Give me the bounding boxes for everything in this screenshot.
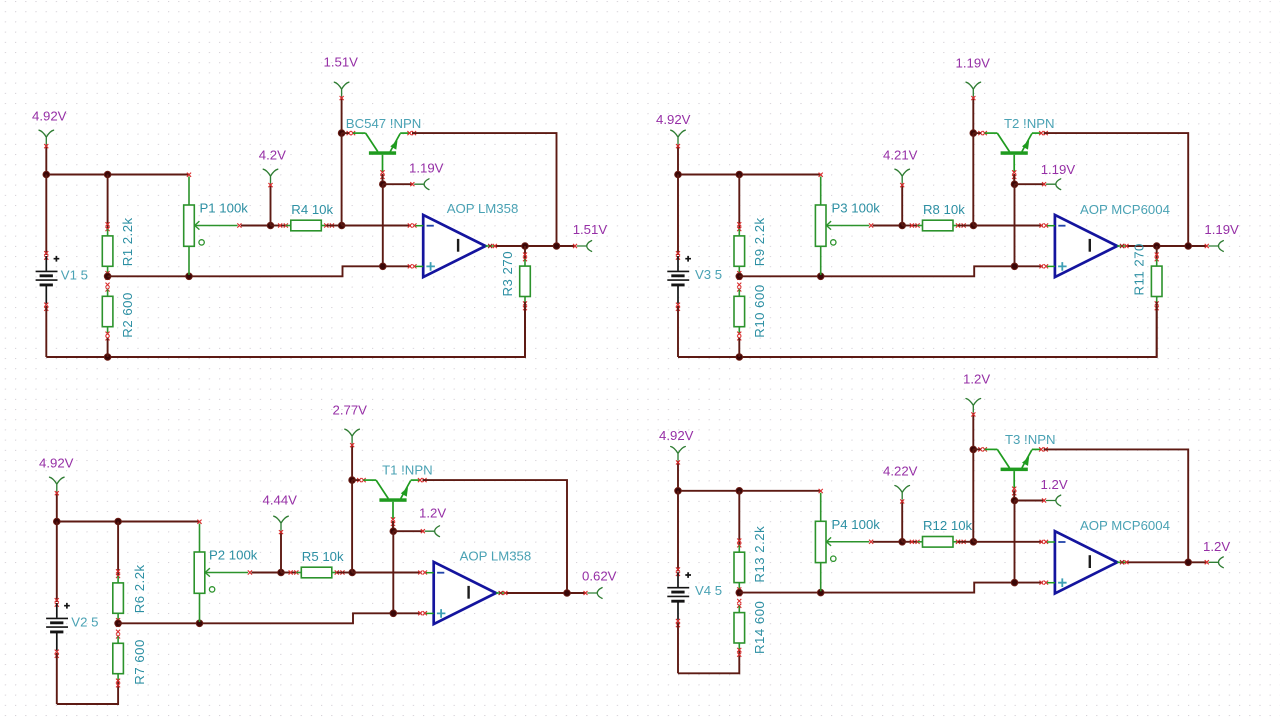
pin x bbox=[488, 244, 497, 248]
wire bbox=[45, 175, 47, 256]
pin x bbox=[408, 264, 417, 268]
label V1 5 bbox=[61, 268, 88, 283]
junction bbox=[899, 222, 906, 229]
wire bbox=[958, 541, 973, 543]
wire bbox=[252, 572, 282, 574]
junction bbox=[675, 488, 682, 495]
resistor R11 270 bbox=[1151, 253, 1162, 311]
junction bbox=[349, 569, 356, 576]
wire bbox=[972, 449, 974, 541]
wire bbox=[973, 225, 1042, 227]
battery V3 5 bbox=[667, 251, 691, 311]
wire bbox=[677, 622, 679, 673]
junction bbox=[1011, 263, 1018, 270]
wire bbox=[1014, 501, 1016, 583]
junction bbox=[736, 354, 743, 361]
op-amp AOP MCP6004 bbox=[1047, 531, 1126, 593]
wire bbox=[337, 572, 352, 574]
wire bbox=[738, 491, 740, 546]
svg-text:4.92V: 4.92V bbox=[32, 109, 67, 124]
svg-text:1.19V: 1.19V bbox=[1204, 222, 1239, 237]
label R9 2.2k bbox=[752, 217, 767, 266]
test point 1.2V bbox=[1205, 557, 1224, 568]
junction bbox=[736, 589, 743, 596]
svg-text:4.2V: 4.2V bbox=[259, 148, 286, 163]
wire bbox=[423, 480, 568, 593]
wire bbox=[901, 500, 903, 542]
resistor R10 600 bbox=[734, 283, 745, 341]
svg-text:P2 100k: P2 100k bbox=[209, 548, 258, 563]
resistor R13 2.2k bbox=[734, 539, 745, 597]
resistor R7 600 bbox=[113, 630, 124, 688]
wire bbox=[902, 225, 917, 227]
wire bbox=[739, 266, 1042, 276]
wire bbox=[1126, 245, 1207, 247]
svg-text:1.51V: 1.51V bbox=[324, 55, 359, 70]
pin x bbox=[418, 611, 427, 615]
node V+ supply-left probe bbox=[671, 130, 686, 148]
wire bbox=[973, 541, 1042, 543]
label 4.92V bbox=[32, 109, 67, 124]
pin x bbox=[1120, 244, 1129, 248]
wire bbox=[902, 541, 917, 543]
wire bbox=[271, 225, 286, 227]
label T1 !NPN bbox=[382, 463, 433, 478]
svg-text:AOP LM358: AOP LM358 bbox=[447, 201, 519, 216]
wire bbox=[351, 480, 353, 572]
junction bbox=[278, 569, 285, 576]
test point 1.51V bbox=[573, 241, 592, 252]
wire bbox=[524, 246, 526, 261]
svg-text:V4 5: V4 5 bbox=[695, 583, 722, 598]
resistor R5 10k bbox=[289, 567, 345, 578]
svg-text:1.2V: 1.2V bbox=[1203, 539, 1230, 554]
junction bbox=[196, 620, 203, 627]
pin x bbox=[1040, 264, 1049, 268]
wire bbox=[392, 521, 394, 531]
svg-text:AOP MCP6004: AOP MCP6004 bbox=[1080, 202, 1170, 217]
wire bbox=[873, 541, 903, 543]
svg-text:4.22V: 4.22V bbox=[883, 464, 918, 479]
wire bbox=[1013, 174, 1015, 184]
svg-text:T1 !NPN: T1 !NPN bbox=[382, 463, 433, 478]
resistor R12 10k bbox=[910, 537, 966, 548]
junction bbox=[186, 273, 193, 280]
circuit 1 : top-left LM358 stage bbox=[32, 55, 607, 361]
label R3 270 bbox=[500, 251, 515, 297]
svg-text:1.19V: 1.19V bbox=[409, 161, 444, 176]
wire bbox=[901, 184, 903, 226]
wire bbox=[383, 183, 413, 185]
wire bbox=[973, 132, 980, 134]
junction bbox=[970, 446, 977, 453]
svg-text:R1 2.2k: R1 2.2k bbox=[120, 217, 135, 266]
wire bbox=[46, 307, 525, 357]
wire bbox=[1156, 246, 1158, 261]
junction bbox=[380, 181, 387, 188]
wire bbox=[678, 490, 821, 492]
junction bbox=[736, 273, 743, 280]
wire bbox=[57, 681, 118, 704]
wire bbox=[56, 522, 58, 603]
label 1.2V bbox=[419, 505, 446, 520]
wire bbox=[46, 174, 189, 176]
label 0.62V bbox=[582, 569, 617, 584]
test point 4.44V bbox=[274, 516, 289, 534]
wire bbox=[56, 653, 58, 704]
pin x bbox=[1120, 560, 1129, 564]
svg-text:AOP MCP6004: AOP MCP6004 bbox=[1080, 518, 1170, 533]
wire bbox=[281, 572, 296, 574]
wire bbox=[57, 521, 200, 523]
junction bbox=[104, 171, 111, 178]
svg-text:1.51V: 1.51V bbox=[573, 222, 608, 237]
svg-text:0.62V: 0.62V bbox=[582, 569, 617, 584]
wire bbox=[392, 531, 394, 613]
wire bbox=[351, 444, 353, 481]
op-amp AOP LM358 bbox=[426, 562, 505, 624]
wire bbox=[107, 175, 109, 230]
label AOP LM358 bbox=[447, 201, 519, 216]
resistor R8 10k bbox=[910, 220, 966, 231]
svg-text:V1 5: V1 5 bbox=[61, 268, 88, 283]
junction bbox=[1185, 559, 1192, 566]
test point 4.21V bbox=[895, 169, 910, 187]
op-amp AOP LM358 bbox=[415, 215, 494, 277]
battery V4 5 bbox=[667, 567, 691, 627]
wire bbox=[280, 531, 282, 573]
wire bbox=[1156, 302, 1158, 357]
svg-text:1.19V: 1.19V bbox=[1041, 162, 1076, 177]
wire bbox=[972, 97, 974, 134]
label 4.44V bbox=[263, 492, 298, 507]
label 1.2V bbox=[963, 372, 990, 387]
label 4.92V bbox=[656, 112, 691, 127]
label V3 5 bbox=[695, 267, 722, 282]
junction bbox=[338, 130, 345, 137]
label V2 5 bbox=[71, 615, 98, 630]
junction bbox=[380, 263, 387, 270]
svg-text:R11 270: R11 270 bbox=[1132, 243, 1147, 295]
junction bbox=[736, 488, 743, 495]
label R1 2.2k bbox=[120, 217, 135, 266]
svg-text:4.44V: 4.44V bbox=[263, 492, 298, 507]
wire bbox=[524, 302, 526, 357]
pin x bbox=[1040, 223, 1049, 227]
pin x bbox=[1040, 540, 1049, 544]
test point 1.2V bbox=[421, 526, 440, 537]
label R6 2.2k bbox=[132, 564, 147, 613]
svg-text:4.92V: 4.92V bbox=[39, 456, 74, 471]
label BC547 !NPN bbox=[346, 116, 422, 131]
junction bbox=[817, 589, 824, 596]
label P3 100k bbox=[832, 201, 881, 216]
wire bbox=[342, 225, 411, 227]
label R10 600 bbox=[752, 284, 767, 337]
junction bbox=[390, 528, 397, 535]
wire bbox=[973, 448, 980, 450]
circuit 2 : top-right MCP6004 stage bbox=[656, 56, 1239, 361]
potentiometer P2 100k bbox=[194, 520, 252, 622]
svg-text:R6 2.2k: R6 2.2k bbox=[132, 564, 147, 613]
circuit 3 : bottom-left LM358 stage bbox=[39, 403, 617, 705]
svg-text:2.77V: 2.77V bbox=[333, 403, 368, 418]
label 1.2V bbox=[1203, 539, 1230, 554]
label 1.19V bbox=[409, 161, 444, 176]
svg-text:1.2V: 1.2V bbox=[963, 372, 990, 387]
svg-text:T2 !NPN: T2 !NPN bbox=[1004, 116, 1055, 131]
test point 4.2V bbox=[263, 169, 278, 187]
wire bbox=[45, 306, 47, 357]
label R4 10k bbox=[291, 202, 333, 217]
pin x bbox=[499, 591, 508, 595]
test point 1.19V bbox=[410, 179, 429, 190]
test point 1.19V bbox=[966, 82, 981, 100]
wire bbox=[505, 592, 586, 594]
wire bbox=[1044, 133, 1189, 246]
junction bbox=[736, 171, 743, 178]
label 1.19V bbox=[956, 56, 991, 71]
wire bbox=[412, 133, 557, 246]
svg-text:R5 10k: R5 10k bbox=[302, 549, 344, 564]
label 1.19V bbox=[1204, 222, 1239, 237]
label R5 10k bbox=[302, 549, 344, 564]
test point 1.2V bbox=[1042, 495, 1061, 506]
potentiometer P1 100k bbox=[184, 173, 242, 275]
transistor T2 !NPN bbox=[978, 131, 1048, 179]
junction bbox=[1011, 579, 1018, 586]
svg-text:4.92V: 4.92V bbox=[659, 428, 694, 443]
transistor T1 !NPN bbox=[357, 478, 427, 526]
svg-text:V2 5: V2 5 bbox=[71, 615, 98, 630]
wire bbox=[382, 174, 384, 184]
junction bbox=[1011, 497, 1018, 504]
svg-text:R2 600: R2 600 bbox=[120, 292, 135, 338]
wire bbox=[678, 307, 1157, 357]
wire bbox=[678, 650, 739, 673]
wire bbox=[326, 225, 341, 227]
junction bbox=[43, 171, 50, 178]
wire bbox=[873, 225, 903, 227]
junction bbox=[522, 243, 529, 250]
resistor R6 2.2k bbox=[113, 569, 124, 627]
wire bbox=[678, 174, 821, 176]
junction bbox=[899, 539, 906, 546]
junction bbox=[817, 273, 824, 280]
label 4.21V bbox=[883, 148, 918, 163]
label 1.51V bbox=[324, 55, 359, 70]
svg-text:4.21V: 4.21V bbox=[883, 148, 918, 163]
label R7 600 bbox=[132, 639, 147, 685]
junction bbox=[54, 518, 61, 525]
label 4.2V bbox=[259, 148, 286, 163]
test point 0.62V bbox=[584, 588, 603, 599]
wire bbox=[270, 184, 272, 226]
pin x bbox=[408, 223, 417, 227]
wire bbox=[45, 145, 47, 175]
svg-text:R8 10k: R8 10k bbox=[923, 202, 965, 217]
junction bbox=[553, 243, 560, 250]
node V+ supply-left probe bbox=[50, 477, 65, 495]
svg-text:T3 !NPN: T3 !NPN bbox=[1005, 432, 1056, 447]
label 1.19V bbox=[1041, 162, 1076, 177]
label P2 100k bbox=[209, 548, 258, 563]
wire bbox=[393, 530, 423, 532]
svg-text:R4 10k: R4 10k bbox=[291, 202, 333, 217]
wire bbox=[1126, 561, 1207, 563]
wire bbox=[107, 338, 109, 357]
battery V2 5 bbox=[46, 598, 70, 658]
junction bbox=[970, 222, 977, 229]
wire bbox=[677, 461, 679, 491]
wire bbox=[972, 133, 974, 225]
label 4.92V bbox=[39, 456, 74, 471]
junction bbox=[349, 477, 356, 484]
transistor BC547 !NPN bbox=[347, 131, 417, 179]
test point 1.51V bbox=[334, 82, 349, 100]
svg-text:R9 2.2k: R9 2.2k bbox=[752, 217, 767, 266]
wire bbox=[1015, 500, 1045, 502]
label 2.77V bbox=[333, 403, 368, 418]
label AOP MCP6004 bbox=[1080, 518, 1170, 533]
svg-text:R14 600: R14 600 bbox=[752, 601, 767, 654]
label AOP MCP6004 bbox=[1080, 202, 1170, 217]
wire bbox=[738, 338, 740, 357]
svg-text:P4 100k: P4 100k bbox=[832, 517, 881, 532]
label V4 5 bbox=[695, 583, 722, 598]
resistor R9 2.2k bbox=[734, 222, 745, 280]
wire bbox=[739, 583, 1042, 593]
label R2 600 bbox=[120, 292, 135, 338]
wire bbox=[341, 97, 343, 134]
svg-text:V3 5: V3 5 bbox=[695, 267, 722, 282]
svg-text:1.19V: 1.19V bbox=[956, 56, 991, 71]
wire bbox=[352, 479, 359, 481]
junction bbox=[104, 354, 111, 361]
junction bbox=[675, 171, 682, 178]
svg-text:R7 600: R7 600 bbox=[132, 639, 147, 685]
node V+ supply-left probe bbox=[39, 130, 54, 148]
junction bbox=[115, 518, 122, 525]
test point 1.19V bbox=[1205, 241, 1224, 252]
wire bbox=[118, 613, 421, 623]
wire bbox=[677, 306, 679, 357]
potentiometer P3 100k bbox=[815, 173, 873, 275]
junction bbox=[1185, 243, 1192, 250]
junction bbox=[115, 620, 122, 627]
label R14 600 bbox=[752, 601, 767, 654]
wire bbox=[352, 572, 421, 574]
wire bbox=[958, 225, 973, 227]
label 1.2V bbox=[1041, 477, 1068, 492]
pin x bbox=[418, 571, 427, 575]
test point 1.19V bbox=[1042, 179, 1061, 190]
wire bbox=[241, 225, 271, 227]
label T3 !NPN bbox=[1005, 432, 1056, 447]
wire bbox=[341, 133, 343, 225]
junction bbox=[104, 273, 111, 280]
wire bbox=[677, 491, 679, 572]
wire bbox=[677, 145, 679, 175]
junction bbox=[970, 539, 977, 546]
junction bbox=[267, 222, 274, 229]
wire bbox=[1015, 183, 1045, 185]
junction bbox=[390, 610, 397, 617]
resistor R2 600 bbox=[102, 283, 113, 341]
potentiometer P4 100k bbox=[815, 489, 873, 591]
resistor R14 600 bbox=[734, 599, 745, 657]
svg-text:BC547 !NPN: BC547 !NPN bbox=[346, 116, 422, 131]
wire bbox=[972, 413, 974, 450]
svg-text:R3 270: R3 270 bbox=[500, 251, 515, 297]
test point 2.77V bbox=[345, 429, 360, 447]
svg-text:1.2V: 1.2V bbox=[1041, 477, 1068, 492]
test point 4.22V bbox=[895, 486, 910, 504]
label R12 10k bbox=[923, 518, 973, 533]
resistor R3 270 bbox=[520, 253, 531, 311]
wire bbox=[1044, 449, 1189, 562]
wire bbox=[382, 184, 384, 266]
label R8 10k bbox=[923, 202, 965, 217]
svg-text:1.2V: 1.2V bbox=[419, 505, 446, 520]
wire bbox=[495, 245, 576, 247]
wire bbox=[1014, 184, 1016, 266]
wire bbox=[56, 492, 58, 522]
svg-text:P1 100k: P1 100k bbox=[200, 201, 249, 216]
svg-text:AOP LM358: AOP LM358 bbox=[460, 549, 532, 564]
pin x bbox=[1040, 581, 1049, 585]
junction bbox=[338, 222, 345, 229]
wire bbox=[117, 522, 119, 577]
label P4 100k bbox=[832, 517, 881, 532]
wire bbox=[738, 175, 740, 230]
label R11 270 bbox=[1132, 243, 1147, 295]
junction bbox=[564, 590, 571, 597]
label 1.51V bbox=[573, 222, 608, 237]
label P1 100k bbox=[200, 201, 249, 216]
wire bbox=[677, 175, 679, 256]
resistor R1 2.2k bbox=[102, 222, 113, 280]
label T2 !NPN bbox=[1004, 116, 1055, 131]
op-amp AOP MCP6004 bbox=[1047, 215, 1126, 277]
transistor T3 !NPN bbox=[978, 447, 1048, 495]
wire bbox=[108, 266, 411, 276]
svg-text:P3 100k: P3 100k bbox=[832, 201, 881, 216]
junction bbox=[1011, 181, 1018, 188]
label AOP LM358 bbox=[460, 549, 532, 564]
label 4.22V bbox=[883, 464, 918, 479]
label 4.92V bbox=[659, 428, 694, 443]
battery V1 5 bbox=[36, 251, 60, 311]
svg-text:4.92V: 4.92V bbox=[656, 112, 691, 127]
junction bbox=[1153, 243, 1160, 250]
circuit 4 : bottom-right MCP6004 stage bbox=[659, 372, 1230, 674]
svg-text:R13 2.2k: R13 2.2k bbox=[752, 526, 767, 583]
test point 1.2V bbox=[966, 399, 981, 417]
svg-text:R10 600: R10 600 bbox=[752, 284, 767, 337]
junction bbox=[970, 130, 977, 137]
wire bbox=[342, 132, 349, 134]
wire bbox=[1013, 490, 1015, 500]
resistor R4 10k bbox=[278, 220, 334, 231]
svg-text:R12 10k: R12 10k bbox=[923, 518, 973, 533]
label R13 2.2k bbox=[752, 526, 767, 583]
node V+ supply-left probe bbox=[671, 447, 686, 465]
